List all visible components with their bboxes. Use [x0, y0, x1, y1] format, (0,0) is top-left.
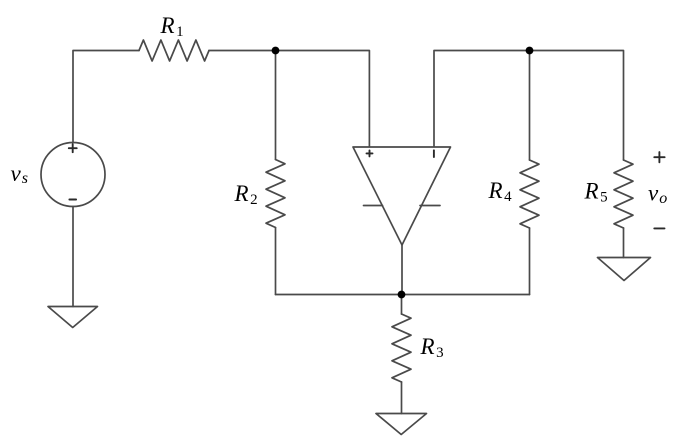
- resistor R1: [139, 40, 209, 61]
- resistor R2: [266, 160, 285, 228]
- wire: [209, 51, 369, 147]
- resistor R5: [614, 160, 633, 228]
- wire: [73, 51, 139, 143]
- vs polarity minus: [69, 199, 76, 201]
- node A junction dot: [272, 47, 280, 55]
- svg-text:R3: R3: [420, 334, 444, 361]
- op-amp input plus: [367, 150, 373, 156]
- resistor R3: [392, 314, 411, 382]
- wire: [275, 228, 277, 295]
- svg-text:R4: R4: [488, 178, 513, 205]
- wire: [401, 382, 403, 414]
- ground: [376, 414, 427, 435]
- op-amp input minus: [433, 150, 435, 157]
- resistor R4: [520, 160, 539, 228]
- ground: [598, 258, 651, 281]
- op-amp: [353, 147, 451, 245]
- wire: [72, 207, 74, 307]
- wire: [529, 228, 531, 295]
- svg-text:R1: R1: [160, 13, 184, 40]
- wire: [276, 294, 530, 296]
- svg-text:vo: vo: [648, 181, 667, 208]
- wire: [275, 51, 277, 160]
- op-amp supply tick left: [364, 205, 383, 207]
- op-amp supply tick right: [420, 205, 440, 207]
- wire: [434, 51, 624, 161]
- wire: [401, 295, 403, 315]
- wire: [401, 245, 403, 295]
- vo polarity plus: [654, 152, 664, 162]
- node B junction dot: [526, 47, 534, 55]
- vs polarity plus: [69, 144, 77, 152]
- svg-text:R5: R5: [584, 179, 608, 206]
- svg-text:vs: vs: [11, 161, 28, 187]
- wire: [529, 51, 531, 161]
- ground: [48, 307, 98, 328]
- vo polarity minus: [654, 227, 664, 229]
- voltage source vs: [41, 143, 105, 207]
- svg-text:R2: R2: [234, 181, 258, 208]
- wire: [623, 228, 625, 258]
- node C junction dot: [398, 291, 406, 299]
